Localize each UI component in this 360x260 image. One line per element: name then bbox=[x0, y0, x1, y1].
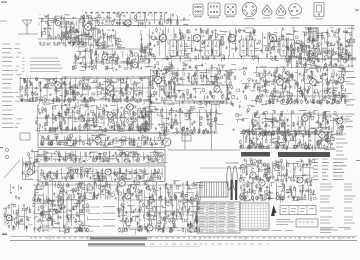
top connector label row bbox=[85, 12, 167, 14]
resistance value table bbox=[197, 202, 240, 233]
transistor T2 bbox=[55, 20, 60, 25]
detector section bbox=[285, 42, 356, 69]
transistor T21 bbox=[250, 172, 256, 178]
grid chart footnote bbox=[241, 230, 265, 232]
pinout transistor case AC151 bbox=[262, 5, 272, 19]
wire horizontal feed bbox=[200, 167, 240, 169]
pinout electrolytic capacitor case bbox=[314, 3, 324, 20]
sheet number 15 bbox=[2, 234, 7, 235]
transistor T9 bbox=[214, 86, 220, 92]
bottom mid notes bbox=[250, 230, 293, 232]
transistor T23 bbox=[119, 180, 125, 186]
title block text row bbox=[30, 237, 354, 239]
pinout transistor clover top view bbox=[289, 4, 302, 19]
alignment grid chart bbox=[240, 203, 269, 229]
interstage coupling bbox=[234, 67, 260, 101]
IF transistor stage 3 bbox=[228, 34, 235, 41]
transistor T14 bbox=[107, 112, 113, 118]
transistor T7 bbox=[107, 85, 113, 91]
AM oscillator section bbox=[72, 48, 153, 72]
transistor T18 bbox=[105, 169, 111, 175]
module board outline 2 bbox=[38, 150, 165, 165]
pinout transistor AF117 bottom view bbox=[193, 4, 203, 17]
transistor T20 bbox=[319, 132, 325, 138]
IF transformer 3a bbox=[240, 40, 247, 56]
IF transformer 3b bbox=[248, 40, 255, 56]
title block bottom rule bbox=[10, 239, 357, 241]
transistor T27 bbox=[259, 180, 265, 186]
waveform legend bbox=[88, 207, 115, 227]
transistor T15 bbox=[302, 115, 308, 121]
tone control section bbox=[139, 106, 224, 137]
transistor T17 bbox=[95, 137, 101, 143]
border tick right-middle bbox=[356, 160, 360, 161]
IF transformer 4b bbox=[288, 40, 295, 56]
transistor T10 bbox=[277, 79, 284, 86]
transistor T22 bbox=[297, 177, 303, 183]
converter top row bbox=[96, 13, 190, 29]
footer text row bbox=[150, 243, 269, 245]
phono terminal bbox=[5, 148, 8, 158]
transistor T13 bbox=[127, 104, 133, 110]
IF transformer 1a bbox=[170, 40, 177, 56]
input selector bbox=[22, 149, 45, 180]
IF amplifier strip bbox=[140, 27, 356, 63]
transistor T16 bbox=[337, 118, 343, 124]
FM tuner section bbox=[38, 14, 103, 47]
output transformer windings bbox=[225, 163, 239, 190]
relay coil bbox=[182, 135, 191, 141]
module 2 circuitry bbox=[40, 151, 167, 164]
right margin terminal labels bbox=[346, 71, 356, 126]
title block dense text lower bbox=[88, 243, 145, 245]
wire bbox=[184, 132, 186, 150]
transistor T8 bbox=[155, 77, 162, 84]
pinout tube socket circular bbox=[242, 2, 256, 19]
right margin notes column bbox=[320, 184, 356, 229]
hatched shield box bbox=[309, 28, 318, 41]
direction arrow symbol bbox=[271, 205, 277, 216]
border tick right-top bbox=[355, 10, 359, 11]
note text block bbox=[276, 219, 294, 224]
module board outline 3 bbox=[38, 166, 165, 182]
parts list column bbox=[2, 44, 23, 128]
pinout IC module top view bbox=[208, 3, 220, 18]
transistor T4 bbox=[102, 54, 108, 60]
audio preamp section bbox=[35, 103, 153, 134]
transistor T26 bbox=[6, 215, 12, 221]
module 1 circuitry bbox=[40, 134, 167, 147]
IF coupling row bbox=[150, 60, 236, 72]
pinout transistor case AC153 bbox=[276, 5, 286, 19]
audio output stage right bbox=[117, 180, 204, 235]
title block dividers bbox=[50, 236, 340, 240]
voltage table bbox=[313, 159, 348, 179]
wire vertical feed a bbox=[211, 104, 213, 150]
module outline bbox=[62, 77, 150, 130]
revision stamp text bbox=[298, 221, 315, 223]
IF transistor stage 4 bbox=[269, 34, 276, 41]
transistor T1 bbox=[85, 24, 92, 31]
IF transformer 2b bbox=[213, 40, 220, 56]
wire B+ rail bbox=[95, 25, 355, 27]
parts list block 2 bbox=[22, 58, 63, 72]
module 3 circuitry bbox=[40, 167, 163, 182]
border tick left-middle bbox=[0, 147, 3, 148]
wire diagonal antenna lead bbox=[4, 160, 20, 178]
driver stage middle bbox=[88, 180, 122, 200]
wire bbox=[47, 14, 49, 39]
wire bbox=[95, 48, 152, 50]
transistor T19 bbox=[27, 169, 33, 175]
switch box bbox=[20, 133, 30, 140]
ratio detector box bbox=[175, 85, 227, 101]
transistor T11 bbox=[310, 79, 317, 86]
bottom-right corner notes bbox=[320, 228, 350, 233]
IF transformer 1b bbox=[178, 40, 185, 56]
transistor T3 bbox=[125, 20, 131, 26]
wire right bus bbox=[351, 25, 353, 68]
output filter section bbox=[239, 182, 316, 203]
mixer oscillator section bbox=[62, 28, 125, 50]
AGC section bbox=[255, 66, 350, 107]
pilot lamp circuit bbox=[10, 184, 22, 199]
ratio detector innards bbox=[175, 88, 227, 101]
transistor T25 bbox=[147, 225, 153, 231]
coupling network bbox=[231, 101, 262, 133]
FM IF module bbox=[149, 68, 236, 108]
grid chart caption bbox=[240, 199, 265, 201]
connector strip table bbox=[280, 206, 316, 215]
fold mark left bbox=[0, 20, 7, 22]
audio output stage left bbox=[33, 180, 95, 234]
ferrite rod coil bbox=[60, 22, 74, 27]
module board outline 1 bbox=[38, 133, 165, 148]
rectifier section bbox=[239, 158, 315, 185]
power supply section bbox=[239, 129, 336, 151]
transistor T5 bbox=[132, 62, 138, 68]
transistor AF output bbox=[163, 138, 171, 146]
wire vertical feed b bbox=[215, 104, 217, 132]
footer rule bbox=[88, 245, 200, 247]
pinout transistor socket bbox=[225, 4, 236, 17]
AM RF section bbox=[20, 76, 155, 105]
terminal label column right bbox=[336, 131, 348, 155]
transformer core bars bbox=[231, 180, 238, 200]
antenna bbox=[18, 20, 38, 34]
battery supply bbox=[3, 203, 33, 232]
driver section bbox=[252, 110, 352, 137]
IF transistor stage 1 bbox=[159, 34, 166, 41]
border tick top-left bbox=[1, 2, 7, 3]
ferrite bar dark module b bbox=[278, 152, 330, 157]
IF transformer 4a bbox=[280, 40, 287, 56]
title block dense text left bbox=[90, 237, 147, 239]
wire bbox=[168, 149, 240, 151]
transistor T24 bbox=[125, 193, 131, 199]
IF transistor stage 2 bbox=[193, 34, 200, 41]
flyback comb box bbox=[200, 182, 228, 197]
ferrite bar dark module a bbox=[241, 152, 270, 157]
transistor T12 bbox=[338, 77, 344, 83]
revision stamp box bbox=[296, 219, 318, 227]
title block top rule bbox=[10, 235, 357, 237]
transistor T6 bbox=[55, 82, 61, 88]
IF transformer 2a bbox=[205, 40, 212, 56]
